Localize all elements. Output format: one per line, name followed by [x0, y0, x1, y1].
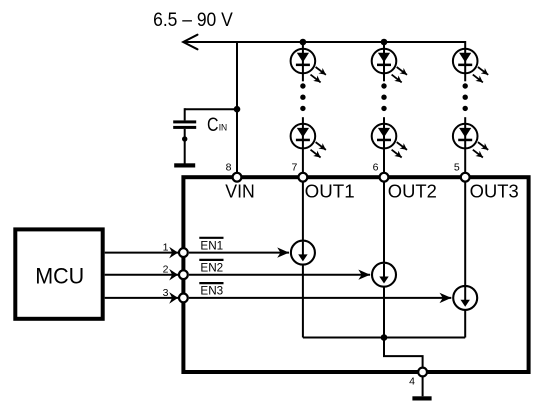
- label CIN: [207, 115, 227, 136]
- label OUT3: [470, 182, 519, 202]
- pin 3 terminal: [179, 294, 188, 303]
- wire: LED string 3 upper: [464, 41, 466, 81]
- junction dot: ground bus: [381, 334, 388, 341]
- ground: IC ground bar: [412, 396, 431, 400]
- LED D6: [453, 124, 488, 158]
- svg-text:3: 3: [163, 287, 169, 299]
- junction dot: CIN tap on VIN line: [234, 106, 241, 113]
- svg-text:4: 4: [409, 376, 415, 388]
- wire: LED string 2 lower: [383, 117, 385, 174]
- pin number 7: [291, 162, 297, 174]
- wire: CIN top lead: [184, 108, 186, 120]
- svg-text:6: 6: [373, 162, 379, 174]
- wire: CIN bottom lead: [184, 129, 186, 164]
- pin number 6: [373, 162, 379, 174]
- pin 1 terminal: [179, 248, 188, 257]
- wire: CIN top horizontal: [185, 108, 237, 110]
- pin number 4: [409, 376, 415, 388]
- svg-text:EN3: EN3: [200, 284, 223, 298]
- junction dot: rail to string2: [381, 39, 388, 46]
- wire: EN3 internal horizontal: [189, 297, 451, 299]
- pin 2 terminal: [179, 270, 188, 279]
- svg-text:5: 5: [454, 162, 460, 174]
- wire: EN2 internal horizontal: [189, 274, 370, 276]
- junction dot: rail to string1: [300, 39, 307, 46]
- wire: pin 4 to ground: [422, 377, 424, 397]
- pin number 2: [163, 264, 169, 276]
- svg-text:7: 7: [291, 162, 297, 174]
- LED D2: [291, 124, 326, 158]
- pin 5 terminal: [461, 173, 470, 182]
- svg-text:C: C: [207, 115, 219, 136]
- svg-text:IN: IN: [219, 122, 228, 133]
- wire: OUT3 internal vertical: [464, 177, 466, 337]
- pin number 1: [163, 242, 169, 254]
- pin 8 terminal: [233, 173, 242, 182]
- wire: OUT1 internal vertical: [302, 177, 304, 337]
- LED D1: [291, 49, 326, 83]
- pin 6 terminal: [380, 173, 389, 182]
- label EN2 with overline: [199, 260, 223, 275]
- wire: top supply rail: [184, 41, 466, 43]
- wire: LED string 3 lower: [464, 117, 466, 174]
- wire: OUT2 internal vertical: [383, 177, 385, 337]
- svg-text:OUT3: OUT3: [470, 182, 519, 202]
- svg-text:MCU: MCU: [35, 263, 84, 288]
- junction dot: CIN ground connection: [182, 136, 187, 141]
- LED D5: [453, 49, 488, 83]
- current source CS1: [291, 241, 315, 265]
- wire: LED string 2 upper: [383, 41, 385, 81]
- LED D4: [372, 124, 407, 158]
- wire: ground bus horizontal: [303, 337, 465, 339]
- label MCU: [35, 263, 84, 288]
- arrowhead: supply rail open arrow pointing left: [183, 35, 197, 50]
- capacitor CIN: [173, 120, 196, 128]
- label EN1 with overline: [199, 238, 223, 253]
- wire: EN1 internal horizontal: [189, 252, 289, 254]
- label OUT1: [305, 182, 355, 202]
- current source CS2: [372, 263, 396, 287]
- label VIN: [225, 182, 255, 202]
- ellipsis dots string 3: [463, 83, 468, 111]
- svg-text:EN1: EN1: [200, 238, 223, 252]
- wire: LED string 1 lower: [302, 117, 304, 174]
- ground: CIN ground bar: [174, 163, 195, 167]
- svg-text:VIN: VIN: [225, 182, 255, 202]
- wire: MCU to pin 2: [105, 274, 178, 276]
- wire: MCU to pin 3: [105, 297, 178, 299]
- ellipsis dots string 1: [300, 83, 305, 111]
- svg-text:8: 8: [226, 162, 232, 174]
- MCU block: [15, 229, 102, 318]
- svg-text:EN2: EN2: [200, 260, 223, 274]
- pin number 3: [163, 287, 169, 299]
- pin 4 terminal: [418, 368, 427, 377]
- svg-text:1: 1: [163, 242, 169, 254]
- wire: MCU to pin 1: [105, 252, 178, 254]
- label OUT2: [388, 182, 437, 202]
- pin 7 terminal: [299, 173, 308, 182]
- label EN3 with overline: [199, 283, 223, 298]
- current source CS3: [453, 286, 477, 310]
- LED D3: [372, 49, 407, 83]
- pin number 8: [226, 162, 232, 174]
- svg-text:2: 2: [163, 264, 169, 276]
- IC U1 boundary box: [183, 177, 528, 372]
- wire: VIN drop from rail to pin 8: [236, 42, 238, 174]
- svg-text:OUT1: OUT1: [305, 182, 355, 202]
- wire: LED string 1 upper: [302, 41, 304, 81]
- ellipsis dots string 2: [381, 83, 386, 111]
- wire: ground bus to pin 4: [384, 338, 423, 373]
- svg-text:OUT2: OUT2: [388, 182, 437, 202]
- pin number 5: [454, 162, 460, 174]
- svg-text:6.5 – 90 V: 6.5 – 90 V: [153, 10, 233, 31]
- supply voltage label 6.5 - 90 V: [153, 10, 233, 31]
